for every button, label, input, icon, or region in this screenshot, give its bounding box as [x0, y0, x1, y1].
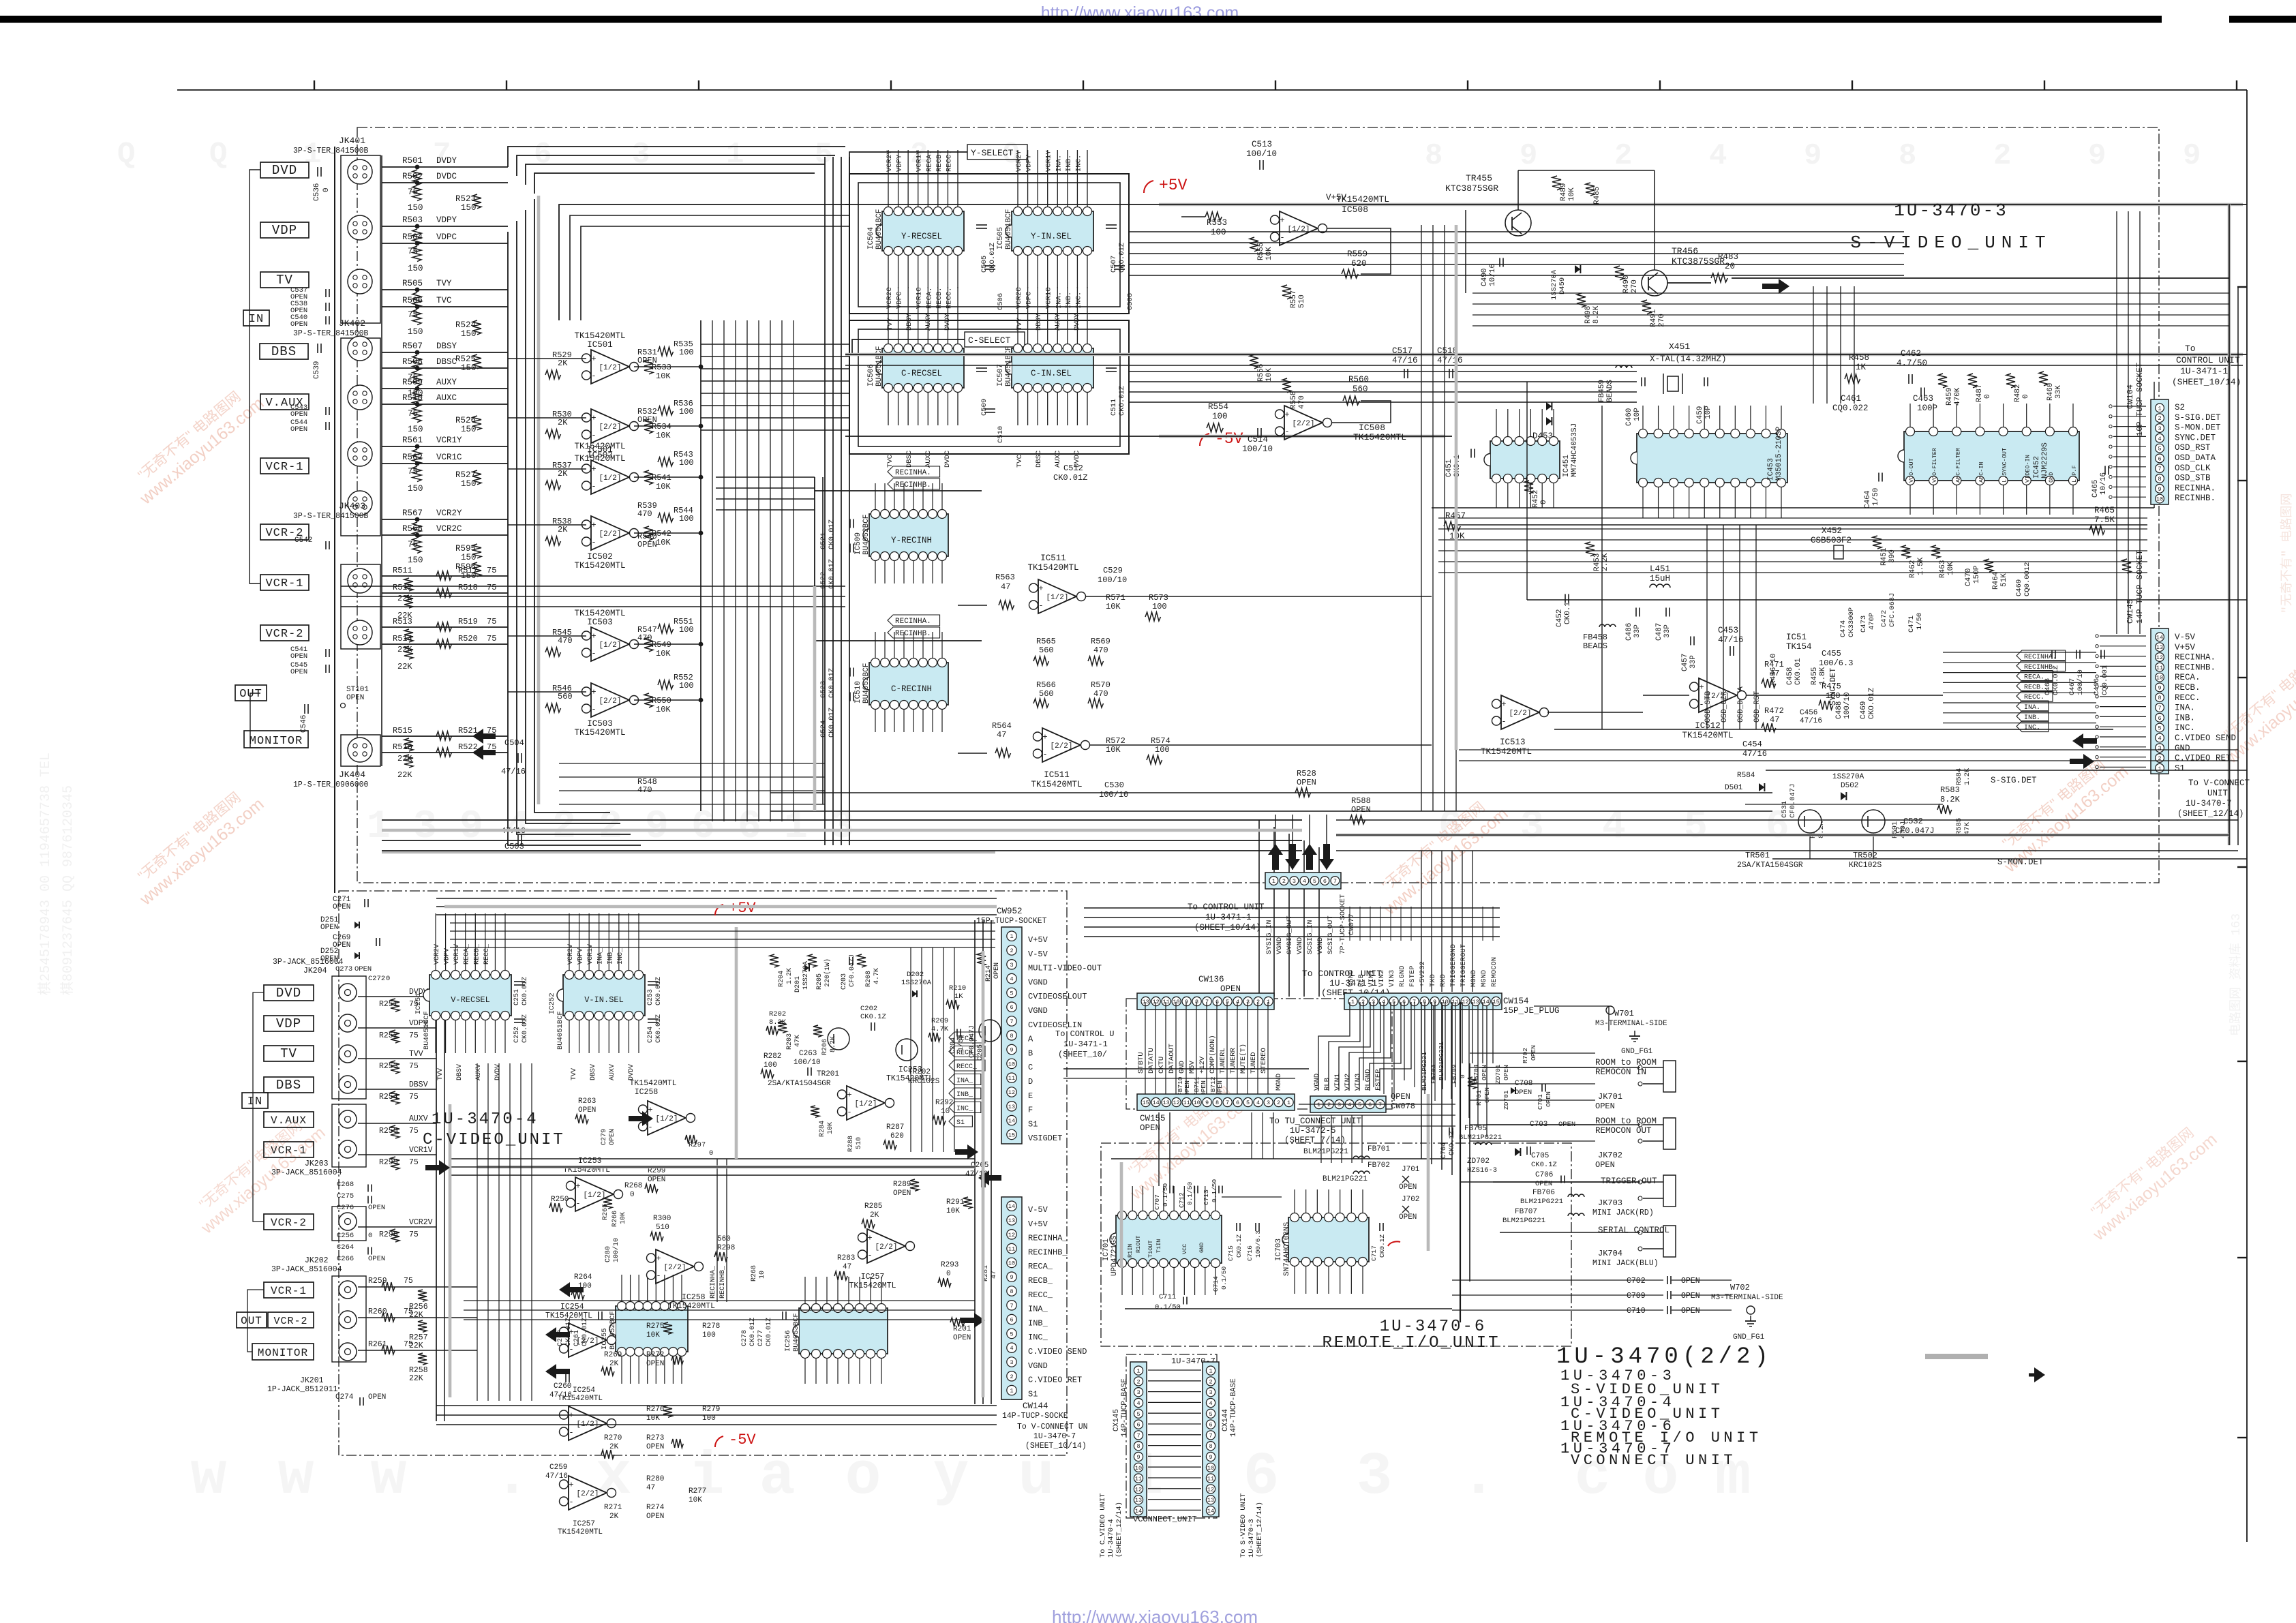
svg-text:3: 3 — [2158, 745, 2161, 752]
svg-text:TR501: TR501 — [1745, 851, 1770, 860]
svg-text:http://www.xiaoyu163.com: http://www.xiaoyu163.com — [1052, 1607, 1258, 1623]
svg-text:MINI JACK(RD): MINI JACK(RD) — [1592, 1209, 1654, 1217]
svg-text:RECA.: RECA. — [2175, 673, 2201, 682]
svg-text:0: 0 — [386, 975, 390, 983]
svg-text:10: 10 — [1008, 1260, 1015, 1266]
svg-text:+: + — [591, 414, 596, 423]
svg-text:10: 10 — [1207, 1465, 1214, 1472]
svg-text:R1IN: R1IN — [1127, 1244, 1134, 1258]
misc horizontal wires right section — [1432, 507, 2154, 509]
svg-text:VIN1: VIN1 — [1333, 1074, 1342, 1091]
svg-text:270: 270 — [1658, 314, 1666, 327]
svg-text:Y-RECSEL: Y-RECSEL — [901, 232, 942, 241]
svg-text:12: 12 — [1008, 1232, 1015, 1239]
resistors R260 75 R257 22K — [358, 1317, 477, 1318]
svg-text:33P: 33P — [1633, 624, 1642, 638]
svg-text:To TU_CONNECT UNIT: To TU_CONNECT UNIT — [1269, 1117, 1362, 1126]
svg-text:R291: R291 — [946, 1198, 965, 1207]
svg-text:1SS270A: 1SS270A — [901, 979, 932, 987]
svg-text:C714: C714 — [1212, 1276, 1220, 1292]
svg-text:C473: C473 — [1860, 616, 1868, 633]
svg-text:DVDV: DVDV — [494, 1064, 502, 1080]
svg-text:1: 1 — [1287, 1099, 1290, 1106]
resistor R561 75 / wire VCR1Y — [382, 446, 508, 447]
svg-text:INB.: INB. — [2175, 713, 2195, 723]
resistor R253 75 wire TVV — [358, 1058, 436, 1059]
verticals connecting S-unit bundle to CW154 — [1421, 851, 1422, 992]
svg-text:R273: R273 — [646, 1434, 664, 1442]
svg-text:C470: C470 — [1965, 568, 1973, 586]
svg-text:4: 4 — [1348, 1102, 1351, 1108]
svg-text:5: 5 — [1010, 990, 1013, 997]
svg-text:8.2K: 8.2K — [1940, 795, 1961, 804]
svg-text:M35015-210SP: M35015-210SP — [1775, 426, 1783, 481]
svg-text:UPD4721GS: UPD4721GS — [1111, 1235, 1119, 1276]
svg-text:TK15420MTL: TK15420MTL — [574, 442, 625, 451]
svg-text:FSTEP: FSTEP — [1374, 1069, 1383, 1091]
IN group bracket wire — [250, 170, 260, 583]
svg-text:V+5V: V+5V — [1028, 1219, 1048, 1229]
svg-text:R274: R274 — [646, 1504, 665, 1512]
svg-text:C469: C469 — [2015, 579, 2023, 596]
svg-text:C273: C273 — [335, 965, 352, 973]
svg-text:5: 5 — [1209, 1411, 1212, 1418]
svg-text:+: + — [1501, 700, 1506, 710]
svg-text:6: 6 — [2158, 455, 2161, 462]
svg-text:To C_VIDEO UNIT: To C_VIDEO UNIT — [1099, 1493, 1107, 1558]
svg-text:75: 75 — [487, 583, 496, 592]
svg-text:(SHEET_10/14): (SHEET_10/14) — [1194, 923, 1261, 932]
svg-text:C713: C713 — [1203, 1189, 1210, 1205]
svg-text:RECA_: RECA_ — [956, 1035, 978, 1043]
svg-text:7.5K: 7.5K — [2094, 515, 2115, 525]
svg-text:GND: GND — [1198, 1243, 1205, 1253]
svg-text:OPEN: OPEN — [1399, 1183, 1417, 1192]
svg-text:R566: R566 — [1036, 680, 1056, 690]
svg-text:CW104: CW104 — [2126, 384, 2135, 409]
svg-text:OPEN: OPEN — [290, 668, 307, 676]
svg-text:10K: 10K — [656, 705, 671, 714]
svg-text:KTC3875SGR: KTC3875SGR — [1672, 256, 1725, 267]
svg-text:C-VIDEO_UNIT: C-VIDEO_UNIT — [423, 1131, 565, 1149]
svg-text:10K: 10K — [689, 1496, 702, 1504]
wires transistor area — [1745, 804, 1943, 805]
svg-text:4: 4 — [2158, 436, 2161, 442]
svg-text:7: 7 — [1378, 1102, 1382, 1108]
svg-text:电路图网 资料库 163: 电路图网 资料库 163 — [2229, 913, 2244, 1036]
svg-text:-: - — [591, 649, 596, 658]
svg-text:VGND: VGND — [1313, 1074, 1321, 1091]
resistor R515 22K and R521 75 — [382, 735, 508, 737]
svg-text:DBSC: DBSC — [905, 451, 913, 468]
svg-text:VCR2Y: VCR2Y — [436, 509, 462, 518]
svg-text:R482: R482 — [2014, 384, 2022, 402]
svg-text:C530: C530 — [1104, 780, 1124, 790]
svg-text:+: + — [847, 1091, 851, 1100]
op-amp IC501 [1/2] TK15420MTL — [591, 350, 629, 384]
svg-text:BU4051BCF: BU4051BCF — [556, 1011, 564, 1050]
svg-text:R491: R491 — [1650, 309, 1658, 327]
c-video top bus bundle — [436, 898, 997, 899]
IC451 MM74HC4053SJ analog switch — [1490, 441, 1560, 479]
wires around op-amp — [508, 417, 586, 419]
svg-text:8: 8 — [1136, 1443, 1140, 1450]
svg-text:OPEN: OPEN — [609, 1129, 616, 1145]
svg-text:15: 15 — [1142, 1099, 1149, 1106]
svg-text:2: 2 — [1136, 1378, 1140, 1385]
svg-text:100/10: 100/10 — [1098, 575, 1127, 585]
svg-text:VCC: VCC — [1181, 1244, 1188, 1254]
wires around op-amp — [508, 468, 586, 470]
svg-text:VGND: VGND — [1316, 937, 1325, 954]
svg-text:470: 470 — [1093, 689, 1108, 699]
svg-text:R485: R485 — [1593, 187, 1601, 204]
svg-text:OPEN: OPEN — [333, 903, 350, 911]
resistor R562 150 / wire VCR1C — [382, 463, 508, 464]
resistor R506 150 / wire TVC — [382, 306, 508, 307]
connector JK404 1P-S-TER_0906000 — [341, 735, 380, 766]
svg-text:y: y — [933, 1444, 969, 1511]
svg-text:R271: R271 — [604, 1504, 622, 1512]
wires cw136 down to remote box — [1251, 1112, 1252, 1159]
svg-text:470: 470 — [558, 636, 573, 646]
svg-text:47/16: 47/16 — [545, 1472, 568, 1481]
svg-text:0.1/50: 0.1/50 — [1220, 1266, 1228, 1290]
svg-text:R278: R278 — [702, 1322, 720, 1331]
svg-text:CW145: CW145 — [2126, 599, 2135, 624]
svg-text:C266: C266 — [337, 1255, 354, 1263]
svg-text:INB_: INB_ — [956, 1091, 973, 1099]
svg-text:CK0.01Z: CK0.01Z — [766, 1318, 773, 1346]
svg-text:1: 1 — [1209, 1368, 1212, 1375]
ground GND_FG1 lower — [1750, 1316, 1751, 1321]
arrows to control unit connector — [1268, 844, 1283, 870]
svg-text:14: 14 — [2156, 634, 2163, 641]
svg-text:RECINHB.: RECINHB. — [2175, 663, 2216, 672]
svg-text:-: - — [847, 1108, 851, 1117]
svg-text:V-5V: V-5V — [1028, 950, 1048, 959]
svg-text:R203: R203 — [786, 1033, 794, 1050]
arrows c-video — [425, 1160, 450, 1175]
svg-text:CX145: CX145 — [1113, 1409, 1121, 1431]
svg-text:FB458: FB458 — [1583, 633, 1607, 642]
svg-text:OPEN: OPEN — [1681, 1292, 1700, 1301]
svg-text:w: w — [191, 1444, 227, 1511]
svg-text:HZS16-3: HZS16-3 — [1467, 1166, 1497, 1174]
wires ic512 area — [1643, 695, 1689, 696]
svg-text:KTC3875SGR: KTC3875SGR — [1445, 183, 1498, 194]
svg-text:11: 11 — [1008, 1075, 1015, 1082]
svg-text:IC502: IC502 — [587, 552, 613, 562]
svg-text:5: 5 — [1684, 805, 1708, 849]
resistor R255 75 wire AUXV — [358, 1123, 436, 1124]
op-amp IC511 [2/2] — [1042, 728, 1081, 762]
svg-text:X452: X452 — [1822, 526, 1842, 536]
svg-text:R283: R283 — [837, 1254, 855, 1262]
svg-text:[2/2]: [2/2] — [599, 530, 621, 539]
svg-text:R465: R465 — [2094, 506, 2115, 515]
svg-text:BU4051BCF: BU4051BCF — [1005, 346, 1013, 386]
svg-text:RECA_: RECA_ — [1028, 1262, 1053, 1271]
svg-text:15: 15 — [1008, 1132, 1015, 1138]
svg-text:x: x — [596, 1444, 632, 1511]
svg-text:OPEN: OPEN — [1595, 1160, 1615, 1170]
main jack bus vertical wires — [334, 147, 335, 893]
svg-text:+: + — [591, 521, 596, 530]
right vertical bus pair — [2228, 204, 2231, 845]
bus wires right of CW077 — [1084, 907, 1500, 909]
svg-text:1U-3471-1: 1U-3471-1 — [1063, 1040, 1108, 1049]
svg-text:R563: R563 — [995, 573, 1015, 582]
svg-text:9: 9 — [1209, 1454, 1212, 1461]
c-video vertical fan from selector ICs — [477, 1063, 478, 1401]
svg-text:TXD: TXD — [1429, 974, 1437, 987]
svg-text:FB705: FB705 — [1464, 1125, 1487, 1133]
svg-text:C536: C536 — [313, 183, 321, 201]
svg-text:VCR1C: VCR1C — [916, 287, 924, 309]
svg-text:1U-3470(2/2): 1U-3470(2/2) — [1556, 1344, 1772, 1370]
inhibit IC IC510 BU4052BCF C-RECINH — [869, 663, 948, 705]
svg-text:VCR2V: VCR2V — [409, 1218, 433, 1227]
page top black bar — [0, 16, 2162, 23]
svg-text:REMOCON: REMOCON — [1490, 957, 1498, 987]
svg-text:DBS: DBS — [271, 344, 297, 359]
svg-text:+: + — [867, 1234, 872, 1243]
svg-text:RECB_: RECB_ — [956, 1050, 978, 1057]
svg-text:150: 150 — [408, 264, 423, 273]
svg-text:C706: C706 — [1535, 1171, 1553, 1179]
svg-text:10: 10 — [2156, 496, 2163, 503]
svg-text:AUXC: AUXC — [924, 451, 933, 468]
wires under open resistors — [770, 792, 1772, 793]
svg-text:FB702: FB702 — [1368, 1162, 1390, 1170]
svg-text:10K: 10K — [656, 431, 671, 440]
svg-text:M3-TERMINAL-SIDE: M3-TERMINAL-SIDE — [1595, 1020, 1667, 1028]
svg-text:J701: J701 — [1402, 1166, 1420, 1174]
svg-text:RECC_: RECC_ — [1028, 1290, 1053, 1300]
svg-text:棋2545178943 00 1194657738 TEL: 棋2545178943 00 1194657738 TEL — [37, 753, 54, 995]
svg-text:TR201: TR201 — [817, 1070, 839, 1078]
svg-text:IC701: IC701 — [1102, 1239, 1111, 1261]
svg-text:1: 1 — [1272, 878, 1275, 885]
svg-text:TK15420MTL: TK15420MTL — [1682, 731, 1733, 740]
svg-text:33P: 33P — [1663, 624, 1672, 638]
svg-text:INB_: INB_ — [1028, 1318, 1048, 1328]
svg-text:47: 47 — [997, 730, 1006, 740]
svg-text:SCSIG_OUT: SCSIG_OUT — [1327, 915, 1335, 954]
svg-text:DVD: DVD — [272, 163, 297, 178]
svg-text:REMOTE_I/O_UNIT: REMOTE_I/O_UNIT — [1322, 1334, 1500, 1352]
svg-text:TK15420MTL: TK15420MTL — [574, 561, 625, 571]
svg-text:BLM21PG221: BLM21PG221 — [1459, 1134, 1502, 1142]
svg-text:1U-3470-3: 1U-3470-3 — [1894, 200, 2008, 221]
svg-text:100/10: 100/10 — [1099, 790, 1128, 800]
svg-text:2: 2 — [1277, 1099, 1280, 1106]
svg-text:BU4052BCF: BU4052BCF — [862, 663, 871, 703]
svg-text:STEREO: STEREO — [1260, 1048, 1268, 1074]
svg-text:AUXY: AUXY — [924, 313, 933, 331]
svg-text:C509: C509 — [980, 399, 988, 416]
IC505 top pin stub wires and labels — [1017, 150, 1018, 207]
connector CW154 15P_JE_PLUG pin row — [1344, 993, 1502, 1010]
svg-text:JK702: JK702 — [1598, 1151, 1622, 1160]
svg-text:V-5V: V-5V — [1028, 1205, 1048, 1215]
svg-text:1SS270A: 1SS270A — [1550, 269, 1558, 300]
svg-text:TK15420MTL: TK15420MTL — [558, 1395, 603, 1403]
svg-text:棋8091237645 QQ 9876120345: 棋8091237645 QQ 9876120345 — [59, 785, 76, 995]
svg-text:C454: C454 — [1742, 740, 1762, 749]
svg-text:R584: R584 — [1737, 772, 1755, 780]
svg-text:(SHEET_12/14): (SHEET_12/14) — [1256, 1502, 1264, 1558]
svg-text:1U-3472-5: 1U-3472-5 — [1290, 1126, 1336, 1136]
svg-text:OPEN: OPEN — [290, 425, 307, 434]
svg-text:CK0.1Z: CK0.1Z — [1378, 1234, 1386, 1258]
svg-text:R250: R250 — [551, 1196, 569, 1204]
svg-text:C251: C251 — [513, 989, 521, 1005]
svg-text:8: 8 — [1215, 1099, 1219, 1106]
wire bundle selectors to IC508 area — [716, 476, 815, 478]
svg-text:13: 13 — [1135, 1497, 1142, 1504]
svg-text:DVDC: DVDC — [943, 451, 952, 468]
svg-text:510: 510 — [1298, 294, 1306, 308]
ground GND_FG1 upper — [1634, 1031, 1635, 1036]
svg-text:75: 75 — [409, 1158, 419, 1167]
svg-text:OPEN: OPEN — [1515, 1089, 1532, 1097]
svg-text:C709: C709 — [1627, 1292, 1646, 1301]
svg-text:"无奇不有" 电路图网: "无奇不有" 电路图网 — [2280, 494, 2295, 613]
connector CW136 pin row top — [1137, 993, 1274, 1010]
svg-text:560: 560 — [1039, 689, 1054, 699]
svg-text:R503: R503 — [402, 215, 423, 225]
svg-text:IC503: IC503 — [587, 618, 613, 627]
svg-text:C275: C275 — [337, 1192, 354, 1200]
svg-text:[2/2]: [2/2] — [599, 423, 621, 431]
svg-text:R288: R288 — [847, 1136, 855, 1152]
svg-text:D: D — [1028, 1077, 1033, 1087]
signal arrow right — [1762, 279, 1789, 294]
svg-text:-: - — [1699, 700, 1704, 710]
svg-text:R279: R279 — [702, 1406, 720, 1414]
svg-text:3: 3 — [830, 805, 854, 849]
svg-text:SCSIG_IN: SCSIG_IN — [1306, 920, 1314, 954]
connector CW077 7P-TUCP-SOCKET — [1265, 873, 1341, 889]
svg-text:12: 12 — [1008, 1089, 1015, 1096]
svg-text:DBSV: DBSV — [590, 1064, 597, 1080]
svg-text:C717: C717 — [1370, 1245, 1378, 1261]
fan wires CW154 to CW078 — [1318, 1002, 1350, 1091]
ladder rung wires between CX145 CX144 — [1148, 1369, 1201, 1371]
svg-text:MGND: MGND — [1480, 970, 1488, 987]
svg-text:0: 0 — [368, 1232, 372, 1240]
svg-text:4: 4 — [1602, 805, 1626, 849]
svg-text:IC254: IC254 — [573, 1386, 595, 1395]
transistor TR501 2SA/KTA1504SGR — [1798, 810, 1822, 833]
svg-text:12: 12 — [1207, 1486, 1214, 1493]
svg-text:RECINHA_: RECINHA_ — [1028, 1234, 1068, 1243]
svg-text:RECB_: RECB_ — [473, 943, 481, 965]
svg-text:IC512: IC512 — [1695, 721, 1721, 731]
svg-text:75: 75 — [487, 617, 496, 626]
svg-text:TK15420MTL: TK15420MTL — [668, 1302, 715, 1311]
svg-text:DBS: DBS — [276, 1078, 301, 1093]
svg-text:STBTU: STBTU — [1137, 1052, 1145, 1074]
op-amp IC512 [2/2] TK15420MTL — [1699, 678, 1737, 712]
IC507 bottom pin stubs — [1017, 393, 1018, 425]
svg-text:INA_: INA_ — [597, 947, 605, 965]
svg-text:OPEN: OPEN — [290, 410, 307, 419]
svg-text:4: 4 — [1709, 139, 1727, 173]
svg-text:AUXC: AUXC — [1054, 451, 1062, 468]
svg-text:R209: R209 — [931, 1017, 948, 1025]
remote horizontals — [1299, 1104, 1455, 1105]
svg-text:2SA/KTA1504SGR: 2SA/KTA1504SGR — [1737, 861, 1803, 870]
svg-text:CQ0.022: CQ0.022 — [1832, 404, 1869, 413]
svg-text:VIN1: VIN1 — [1368, 970, 1376, 987]
svg-text:150P: 150P — [1973, 565, 1981, 583]
svg-text:5: 5 — [2158, 446, 2161, 453]
svg-text:51K: 51K — [2000, 573, 2008, 587]
svg-text:0.1/50: 0.1/50 — [1211, 1179, 1218, 1202]
svg-text:10K: 10K — [646, 1331, 660, 1339]
svg-text:C453: C453 — [1718, 626, 1738, 635]
svg-text:620: 620 — [890, 1132, 904, 1140]
svg-text:C458: C458 — [1786, 667, 1794, 685]
svg-text:3: 3 — [1357, 1444, 1393, 1511]
svg-text:OPEN: OPEN — [1297, 778, 1316, 787]
ruler tick marks top — [314, 80, 315, 90]
svg-text:V+5V: V+5V — [1028, 935, 1048, 945]
svg-text:VCONNECT_UNIT: VCONNECT_UNIT — [1133, 1515, 1197, 1524]
svg-text:6: 6 — [1243, 1444, 1280, 1511]
svg-text:TR455: TR455 — [1466, 173, 1492, 183]
svg-text:3: 3 — [1209, 1389, 1212, 1396]
svg-text:R300: R300 — [653, 1215, 671, 1223]
svg-text:R458: R458 — [1849, 353, 1869, 363]
svg-text:[2/2]: [2/2] — [576, 1490, 599, 1498]
svg-text:1U-3470-4: 1U-3470-4 — [1107, 1519, 1115, 1558]
svg-text:R455: R455 — [1811, 667, 1819, 685]
verticals below CW078 — [1320, 1115, 1322, 1163]
border ruler line top — [177, 89, 2247, 91]
svg-text:C486: C486 — [1625, 623, 1633, 641]
svg-text:BU4051BCF: BU4051BCF — [423, 1011, 431, 1050]
svg-text:C471: C471 — [1907, 616, 1916, 633]
svg-text:1: 1 — [784, 805, 808, 849]
svg-text:2K: 2K — [558, 469, 568, 479]
svg-text:C711: C711 — [1159, 1293, 1176, 1301]
svg-text:10K: 10K — [656, 482, 671, 491]
svg-text:100: 100 — [1155, 745, 1170, 755]
svg-text:BU4051BCF: BU4051BCF — [1005, 209, 1013, 249]
svg-text:CK0.01Z: CK0.01Z — [828, 708, 836, 738]
OUT group bracket wire — [250, 693, 260, 748]
svg-text:47/16: 47/16 — [1800, 717, 1822, 725]
svg-text:DBSY: DBSY — [1035, 313, 1043, 331]
svg-text:1: 1 — [1010, 933, 1013, 940]
svg-text:F: F — [1028, 1106, 1033, 1115]
svg-text:C712: C712 — [1178, 1192, 1185, 1208]
svg-text:S1: S1 — [1028, 1389, 1038, 1399]
svg-text:47/16: 47/16 — [501, 767, 526, 776]
svg-text:75: 75 — [409, 1062, 419, 1071]
svg-text:C465: C465 — [2091, 480, 2100, 498]
svg-text:22K: 22K — [397, 770, 412, 780]
svg-text:47: 47 — [1770, 669, 1779, 678]
svg-text:C522: C522 — [819, 572, 828, 589]
svg-text:OPEN: OPEN — [1681, 1277, 1700, 1286]
svg-text:S2: S2 — [2175, 403, 2185, 412]
svg-text:75: 75 — [487, 634, 496, 643]
